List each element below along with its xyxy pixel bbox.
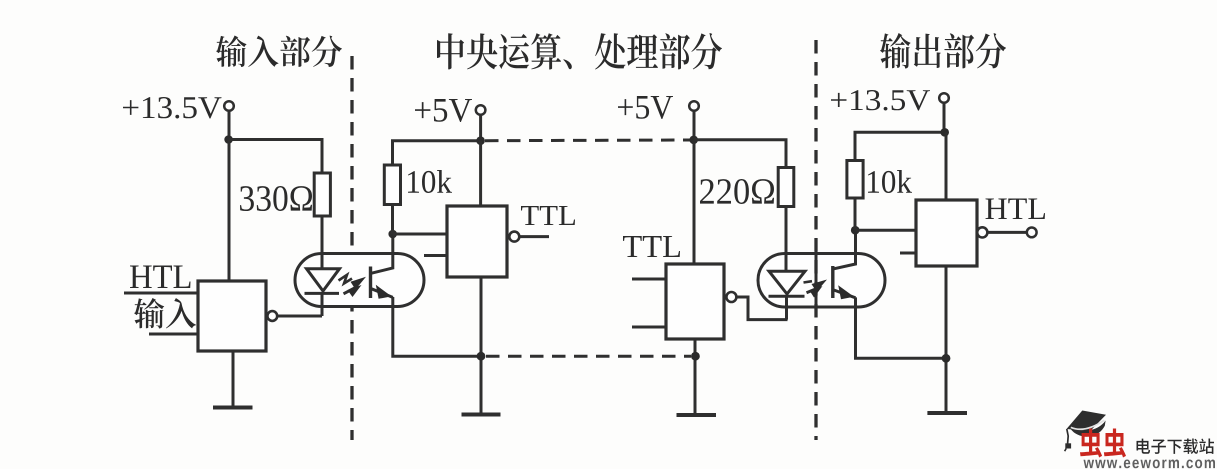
label title 输出部分 (output section) [880, 33, 1006, 69]
label HTL input [130, 266, 191, 289]
wire junction to HTL gate U4 input [855, 229, 916, 232]
junction node ground bus middle [691, 352, 700, 361]
label title 中央运算、处理部分 (CPU section) [437, 33, 722, 70]
phototransistor Q2 collector [834, 230, 856, 269]
watermark www.eeworm.com [1084, 460, 1216, 469]
LED D2 cathode bar [769, 295, 805, 298]
dashed +5V rail link wire [485, 139, 690, 143]
label 输入 (input) [134, 298, 196, 329]
label HTL output [986, 199, 1046, 220]
LED D1 triangle of optocoupler T1 [307, 269, 340, 291]
resistor R4 10k body [847, 161, 863, 199]
wire R2 top to +5V rail [393, 141, 481, 165]
wire +5V rail 2 to resistor R3 [694, 140, 786, 168]
wire input 1 of U1 [124, 292, 198, 295]
phototransistor Q1 base bar [369, 267, 372, 299]
value label 330Ω for resistor R1 [240, 186, 312, 211]
HTL input gate U1 body [198, 281, 266, 351]
watermark 虫虫 red characters [1080, 429, 1126, 458]
label title 输入部分 (input section) [216, 36, 342, 68]
wire +5V terminal 2 down [693, 111, 696, 140]
light arrow 2 of optocoupler T1 [344, 285, 362, 297]
optocoupler T2 envelope [758, 254, 885, 308]
TTL gate U3 body [666, 264, 724, 339]
HTL output gate U4 body [916, 200, 977, 266]
wire stub input 2 of U3 [632, 326, 666, 329]
wire input 2 of U1 [149, 333, 198, 336]
wire U4 bottom to ground [945, 266, 948, 412]
watermark graduation cap icon [1065, 411, 1106, 452]
ground bar below U4 [927, 411, 967, 415]
wire LED D2 cathode down [785, 296, 788, 319]
resistor R1 330Ω body [314, 173, 330, 216]
wire +5V down to TTL gate U2 top [479, 141, 482, 206]
terminal +13.5V left [224, 101, 234, 111]
wire stub input 2 of U2 [424, 254, 447, 257]
terminal +5V supply 1 [476, 105, 486, 115]
wire R2 bottom to junction [391, 205, 394, 235]
wire +13.5V down to HTL gate U1 top [228, 140, 231, 282]
dashed section boundary line 1 [350, 56, 353, 440]
wire R4 top to +13.5V rail [855, 132, 945, 160]
wire from +13.5V terminal down [228, 111, 231, 139]
resistor R3 220Ω body [778, 168, 794, 207]
junction node Q2 collector / R4 [851, 226, 860, 235]
ground bar below U3 [677, 413, 717, 417]
light arrow 1 of optocoupler T2 [804, 280, 828, 292]
label +13.5V right supply [831, 90, 930, 111]
wire junction to TTL gate U2 input [393, 233, 447, 236]
wire U3 output to LED D2 cathode [736, 297, 787, 320]
phototransistor Q1 collector [372, 234, 393, 273]
inverting output bubble of U2 [509, 232, 519, 242]
wire R3 bottom to LED D2 anode [785, 207, 788, 272]
wire +13.5V rail to resistor R1 [229, 140, 322, 174]
wire stub input 1 of U3 [632, 278, 666, 281]
junction node +5V rail 2 [689, 136, 698, 145]
wire U1 bottom to ground [232, 351, 235, 407]
label +5V supply 1 [415, 99, 472, 122]
wire +5V terminal 1 down [479, 115, 482, 141]
wire U1 output to optocoupler LED cathode [277, 315, 322, 318]
wire LED D1 cathode down to output wire [321, 293, 324, 316]
TTL gate U2 body [447, 206, 507, 277]
label +13.5V left supply [123, 97, 222, 119]
wire +13.5V down to HTL gate U4 top [945, 132, 948, 200]
wire +13.5V terminal right down [943, 103, 946, 133]
dashed ground bus link wire [486, 355, 691, 358]
LED D1 cathode bar [305, 292, 340, 295]
wire Q1 emitter down [393, 297, 481, 356]
value label 220Ω for resistor R3 [700, 179, 774, 204]
phototransistor Q2 base bar [831, 266, 834, 298]
dashed section boundary line 2 [814, 40, 817, 440]
wire U3 bottom to ground [694, 339, 697, 414]
ground bar below U2 [462, 413, 501, 417]
wire R4 bottom to junction [854, 198, 857, 230]
inverting output bubble of U4 [977, 227, 987, 237]
label TTL 2 [623, 236, 680, 257]
ground bar below U1 [213, 406, 253, 410]
inverting output bubble of U3 [726, 292, 736, 302]
junction node at +13.5V rail left [224, 135, 233, 144]
junction node ground bus right [942, 354, 951, 363]
terminal HTL output [1027, 228, 1037, 238]
optocoupler T1 envelope [295, 254, 424, 307]
label +5V supply 2 [618, 96, 673, 119]
wire U4 output to HTL terminal [987, 231, 1026, 234]
phototransistor Q1 emitter with arrow [372, 285, 393, 299]
junction node Q1 collector / R2 [388, 230, 397, 239]
wire Q2 emitter down [856, 297, 947, 358]
value label 10k for resistor R2 [408, 170, 452, 193]
label TTL 1 [521, 206, 575, 225]
terminal +5V supply 2 [689, 101, 699, 111]
junction node +13.5V rail right [940, 128, 949, 137]
junction node ground bus left [477, 352, 486, 361]
inverting output bubble of U1 [267, 311, 277, 321]
wire U2 output [519, 235, 549, 238]
light arrow 1 of optocoupler T1 [339, 275, 367, 290]
phototransistor Q2 emitter with arrow [834, 285, 856, 299]
resistor R2 10k body [384, 165, 400, 205]
wire U2 bottom to ground [480, 277, 483, 414]
wire stub input 2 of U4 [900, 252, 916, 255]
wire R1 bottom to LED anode [321, 216, 324, 269]
junction node +5V rail 1 [476, 136, 485, 145]
terminal +13.5V right [939, 93, 949, 103]
light arrow 2 of optocoupler T2 [807, 286, 823, 298]
value label 10k for resistor R4 [868, 170, 912, 193]
watermark 电子下载站 text [1137, 439, 1215, 455]
LED D2 triangle of optocoupler T2 [769, 271, 805, 294]
wire +5V down to TTL gate U3 top [693, 140, 696, 264]
